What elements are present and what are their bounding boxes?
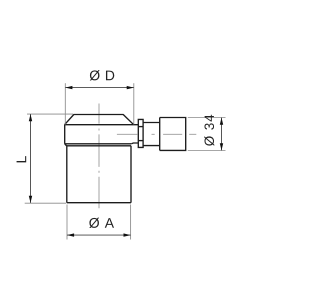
medium cylinder bottom	[143, 145, 160, 147]
neck bottom line	[131, 142, 138, 145]
dimension O34 top extension line	[188, 117, 226, 119]
horizontal centerline of side fitting	[117, 133, 196, 135]
dimension OD arrow left	[65, 86, 72, 89]
dimension OD extension line right	[133, 83, 135, 124]
dimension L arrow bottom	[29, 196, 32, 203]
dimension O34 bottom extension line	[188, 150, 226, 152]
dimension OD arrow right	[127, 86, 134, 89]
vertical centerline of body	[98, 104, 100, 209]
dimension L bottom extension line	[25, 202, 66, 204]
label OD	[90, 70, 115, 80]
dimension OA extension line left	[66, 205, 68, 240]
cap right chamfer	[123, 115, 133, 125]
medium cylinder top	[143, 122, 160, 124]
dimension L arrow top	[29, 114, 32, 121]
cap lower band line	[65, 143, 132, 145]
cap left chamfer	[65, 115, 74, 125]
dimension O34 arrow top	[220, 118, 223, 125]
main cylinder right edge	[130, 146, 132, 203]
dimension L top extension line	[27, 113, 73, 115]
dimension O34 arrow bottom	[220, 143, 223, 150]
large cylinder left edge	[159, 118, 161, 151]
large cylinder outline	[160, 118, 186, 151]
dimension OA extension line right	[130, 205, 132, 240]
collar inner line lower	[138, 140, 143, 142]
label L	[17, 156, 27, 162]
dimension L line	[30, 114, 32, 203]
collar outline	[138, 119, 143, 147]
cap top face	[74, 114, 124, 116]
cap left edge	[64, 124, 66, 144]
dimension OD line	[65, 87, 134, 89]
collar inner line upper	[138, 126, 143, 128]
label OA	[89, 218, 114, 228]
cap bottom left chamfer	[65, 144, 67, 146]
cap band line and neck top	[65, 124, 139, 126]
main cylinder bottom edge	[67, 202, 131, 204]
dimension OD extension line left	[64, 83, 66, 124]
dimension OA arrow left	[67, 233, 74, 236]
main cylinder left edge	[66, 146, 68, 203]
label O34	[204, 115, 214, 146]
cap bottom edge	[67, 145, 132, 147]
dimension OA line	[67, 234, 131, 236]
dimension OA arrow right	[124, 233, 131, 236]
dimension O34 line	[221, 118, 223, 151]
